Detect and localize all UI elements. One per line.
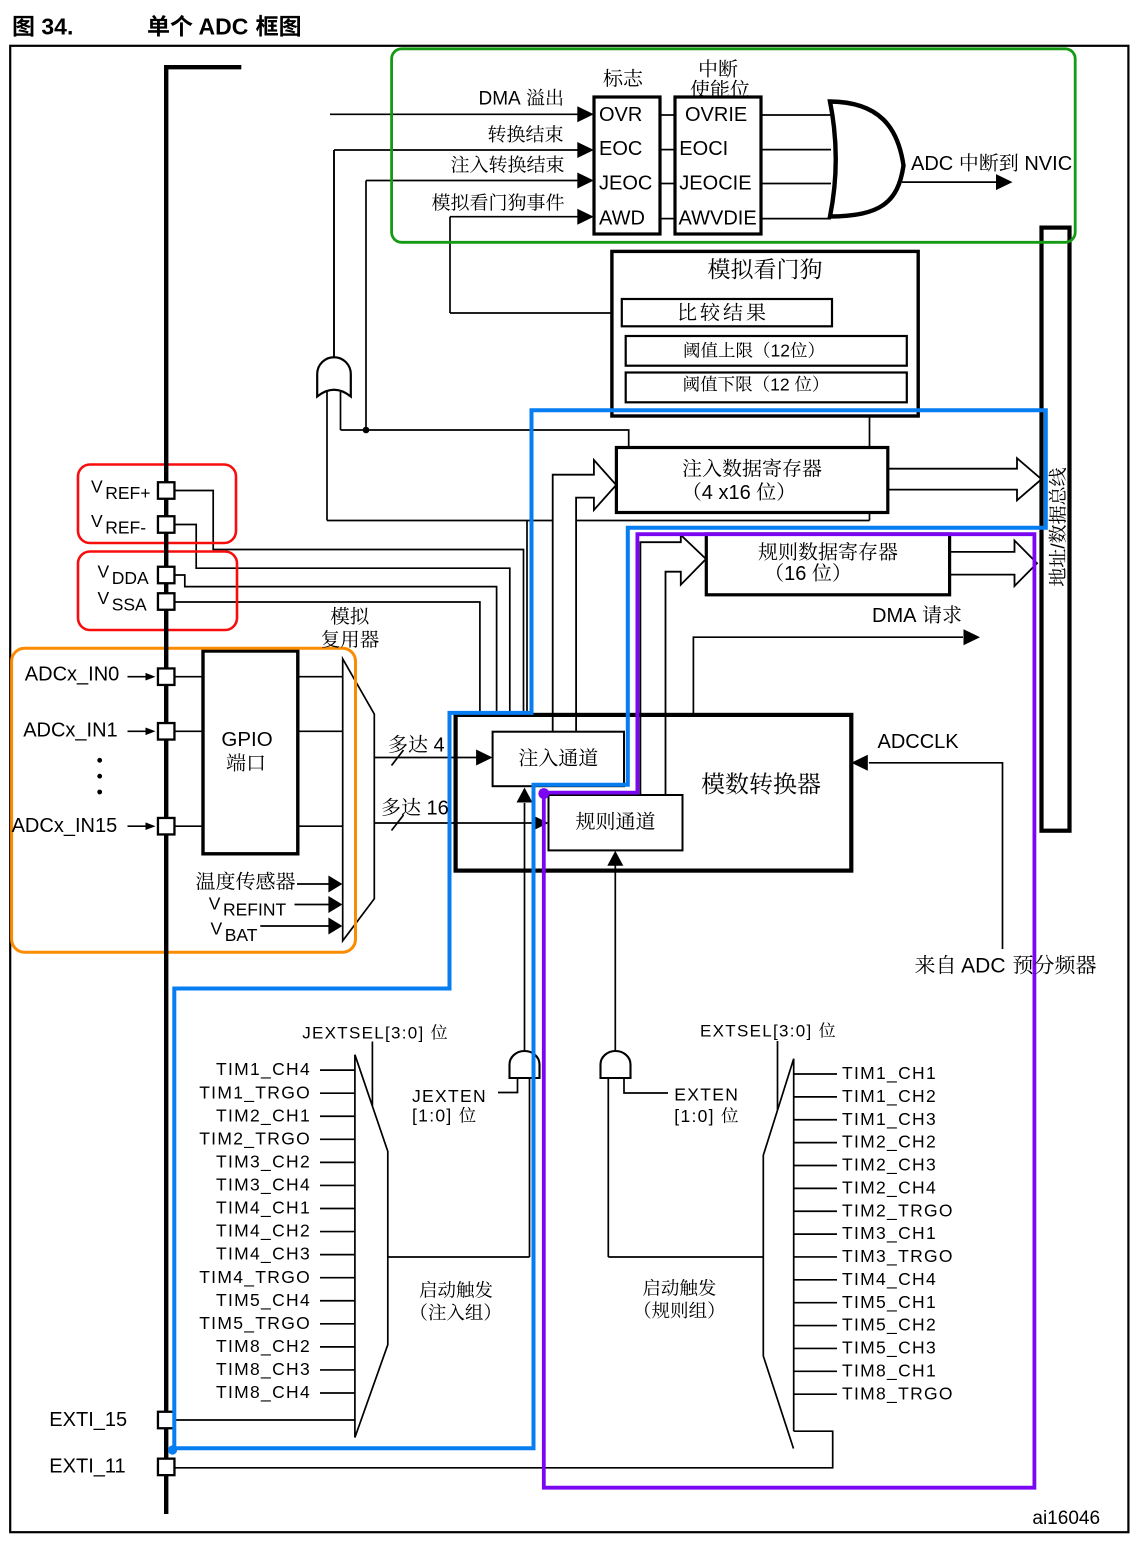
svg-text:JEOCIE: JEOCIE — [679, 172, 751, 194]
svg-text:DMA: DMA — [479, 89, 525, 110]
svg-text:TIM8_TRGO: TIM8_TRGO — [842, 1383, 954, 1404]
svg-text:16: 16 — [421, 798, 449, 820]
svg-text:TIM3_CH2: TIM3_CH2 — [216, 1152, 311, 1173]
svg-text:AWD: AWD — [599, 207, 645, 229]
svg-text:ADCx_IN15: ADCx_IN15 — [12, 815, 118, 837]
svg-text:TIM3_TRGO: TIM3_TRGO — [842, 1246, 954, 1267]
svg-text:EXTEN: EXTEN — [674, 1084, 739, 1104]
svg-text:TIM2_CH1: TIM2_CH1 — [216, 1105, 311, 1126]
svg-text:EXTI_11: EXTI_11 — [49, 1456, 125, 1478]
svg-text:TIM5_CH4: TIM5_CH4 — [216, 1290, 311, 1311]
svg-text:TIM8_CH1: TIM8_CH1 — [842, 1360, 937, 1381]
svg-text:V: V — [91, 477, 103, 497]
svg-text:TIM4_TRGO: TIM4_TRGO — [199, 1267, 311, 1288]
svg-text:TIM1_CH4: TIM1_CH4 — [216, 1059, 311, 1080]
svg-text:12: 12 — [770, 374, 794, 394]
svg-text:TIM2_CH4: TIM2_CH4 — [842, 1177, 937, 1198]
svg-text:DDA: DDA — [112, 568, 149, 588]
svg-text:V: V — [98, 588, 110, 608]
svg-text:ADCx_IN1: ADCx_IN1 — [23, 719, 117, 741]
svg-text:ADC: ADC — [957, 955, 1012, 978]
svg-text:REF-: REF- — [105, 518, 146, 538]
svg-text:TIM5_CH3: TIM5_CH3 — [842, 1338, 937, 1359]
svg-text:TIM4_CH3: TIM4_CH3 — [216, 1244, 311, 1265]
svg-text:REFINT: REFINT — [223, 900, 287, 920]
svg-text:4 x16: 4 x16 — [702, 482, 756, 504]
svg-text:TIM8_CH2: TIM8_CH2 — [216, 1336, 311, 1357]
svg-text:OVR: OVR — [599, 104, 642, 126]
svg-text:DMA: DMA — [872, 605, 921, 627]
svg-text:TIM2_TRGO: TIM2_TRGO — [199, 1128, 311, 1149]
svg-text:ADC: ADC — [193, 14, 255, 40]
svg-text:TIM4_CH4: TIM4_CH4 — [842, 1269, 937, 1290]
svg-text:EXTI_15: EXTI_15 — [49, 1409, 127, 1431]
svg-text:TIM4_CH1: TIM4_CH1 — [216, 1198, 311, 1219]
svg-text:JEXTSEL[3:0]: JEXTSEL[3:0] — [302, 1023, 430, 1042]
svg-text:TIM3_CH4: TIM3_CH4 — [216, 1175, 311, 1196]
svg-text:TIM2_CH2: TIM2_CH2 — [842, 1132, 937, 1153]
svg-text:TIM2_CH3: TIM2_CH3 — [842, 1155, 937, 1176]
svg-text:OVRIE: OVRIE — [685, 104, 747, 126]
svg-text:AWVDIE: AWVDIE — [679, 207, 757, 229]
svg-text:[1:0]: [1:0] — [412, 1106, 459, 1126]
svg-text:/: / — [1049, 543, 1070, 549]
svg-text:GPIO: GPIO — [221, 728, 272, 751]
svg-text:V: V — [98, 562, 110, 582]
svg-text:TIM3_CH1: TIM3_CH1 — [842, 1223, 937, 1244]
svg-text:NVIC: NVIC — [1019, 153, 1072, 175]
svg-text:EOCI: EOCI — [679, 138, 728, 160]
svg-text:TIM8_CH4: TIM8_CH4 — [216, 1382, 311, 1403]
svg-text:12: 12 — [771, 341, 790, 361]
svg-text:SSA: SSA — [112, 595, 147, 615]
svg-text:V: V — [211, 919, 223, 939]
svg-text:REF+: REF+ — [105, 483, 150, 503]
svg-text:V: V — [209, 893, 221, 913]
svg-text:TIM5_CH1: TIM5_CH1 — [842, 1292, 937, 1313]
svg-text:16: 16 — [784, 563, 812, 585]
svg-text:TIM8_CH3: TIM8_CH3 — [216, 1359, 311, 1380]
svg-text:V: V — [91, 511, 103, 531]
svg-text:4: 4 — [428, 735, 445, 757]
svg-text:TIM2_TRGO: TIM2_TRGO — [842, 1200, 954, 1221]
svg-text:JEXTEN: JEXTEN — [412, 1086, 487, 1106]
svg-text:EOC: EOC — [599, 138, 642, 160]
svg-text:[1:0]: [1:0] — [674, 1106, 721, 1126]
svg-text:ADC: ADC — [911, 153, 959, 175]
svg-text:TIM1_CH1: TIM1_CH1 — [842, 1063, 937, 1084]
svg-text:EXTSEL[3:0]: EXTSEL[3:0] — [700, 1022, 819, 1041]
svg-text:TIM5_CH2: TIM5_CH2 — [842, 1315, 937, 1336]
svg-text:ADCCLK: ADCCLK — [878, 731, 960, 753]
svg-text:JEOC: JEOC — [599, 172, 652, 194]
svg-text:ADCx_IN0: ADCx_IN0 — [25, 664, 119, 686]
svg-text:TIM1_TRGO: TIM1_TRGO — [199, 1082, 311, 1103]
svg-text:ai16046: ai16046 — [1032, 1508, 1100, 1529]
svg-text:TIM1_CH3: TIM1_CH3 — [842, 1109, 937, 1130]
svg-text:TIM5_TRGO: TIM5_TRGO — [199, 1313, 311, 1334]
svg-text:BAT: BAT — [225, 925, 258, 945]
svg-text:TIM4_CH2: TIM4_CH2 — [216, 1221, 311, 1242]
svg-text:TIM1_CH2: TIM1_CH2 — [842, 1086, 937, 1107]
svg-text:34.: 34. — [35, 14, 73, 40]
